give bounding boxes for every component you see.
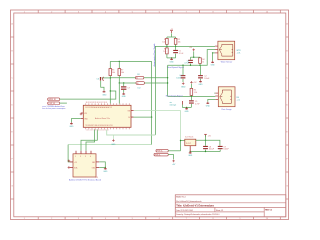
wire C5 bottom stub bbox=[190, 104, 192, 108]
net label U2 right bbox=[236, 50, 242, 55]
wire P3 stub bbox=[190, 84, 192, 89]
wire C8 top bbox=[205, 140, 207, 146]
capacitor C8 bbox=[203, 146, 215, 151]
resistor R1 bbox=[162, 38, 168, 44]
wire rain signal bbox=[168, 95, 216, 97]
ground C2 bbox=[199, 80, 204, 86]
wire C3 top stub bbox=[190, 57, 192, 60]
label wind speed signal bbox=[167, 67, 185, 69]
wire divider top tee bbox=[167, 36, 176, 38]
svg-text:10k: 10k bbox=[163, 51, 166, 53]
wire Arduino 5V pin bbox=[132, 116, 152, 118]
svg-text:100nF: 100nF bbox=[204, 78, 210, 80]
transistor T1 emitter bbox=[182, 101, 184, 105]
capacitor C9 bbox=[218, 146, 230, 151]
svg-text:_LVL: _LVL bbox=[236, 53, 241, 55]
wire RTC pin8 bbox=[99, 166, 105, 168]
wire C2 bottom stub bbox=[200, 79, 202, 81]
wire VIN to regulator bbox=[134, 111, 181, 141]
ground C6 bbox=[102, 90, 107, 96]
svg-text:GND: GND bbox=[188, 155, 193, 157]
ground divider bbox=[170, 58, 175, 64]
net flag MISO bbox=[110, 74, 167, 80]
svg-text:5 S S G: 5 S S G bbox=[75, 156, 93, 158]
wire U2 pin3 gnd stub bbox=[212, 53, 214, 61]
wire rain signal vertical bbox=[167, 65, 169, 96]
wire +5V to RTC (long light) bbox=[68, 144, 152, 146]
ground U2 pin3 bbox=[211, 61, 216, 67]
junction divider gnd bbox=[171, 57, 172, 58]
wire C3 bottom stub bbox=[190, 64, 192, 66]
svg-text:Rain Gauge: Rain Gauge bbox=[221, 109, 231, 111]
svg-text:GND: GND bbox=[199, 84, 204, 86]
IC IC3 RTC breakout bbox=[70, 151, 99, 177]
wire R1 bottom stub bbox=[166, 44, 168, 46]
capacitor C6 bbox=[96, 77, 103, 81]
supply +5V P2 bbox=[189, 47, 195, 51]
svg-text:IN OUT: IN OUT bbox=[186, 143, 191, 145]
svg-text:Adafruit DS1307 RTC Breakout B: Adafruit DS1307 RTC Breakout Board bbox=[69, 179, 101, 182]
net label U3 right bbox=[236, 97, 241, 102]
svg-text:_cnt: _cnt bbox=[236, 99, 241, 102]
ground C7 bbox=[122, 93, 127, 99]
junction pullup right bbox=[119, 61, 120, 62]
junction reg out bbox=[205, 140, 206, 141]
capacitor C7 bbox=[121, 86, 130, 89]
junction R1/vane bbox=[166, 46, 167, 47]
svg-text:100nF: 100nF bbox=[176, 77, 182, 79]
wire driver top bbox=[191, 56, 201, 58]
wire R4 top stub bbox=[199, 56, 201, 59]
svg-text:D11: D11 bbox=[137, 74, 140, 76]
net flag VIN- bbox=[154, 153, 174, 159]
wire R6 bottom bbox=[109, 76, 111, 104]
wire R2 top stub bbox=[175, 37, 177, 38]
svg-text:Wind Speed Signal: Wind Speed Signal bbox=[167, 67, 185, 69]
wire wind vane signal bbox=[155, 46, 215, 135]
svg-text:TX1 RX0 RST GND D2 D3 D4 D5 D6: TX1 RX0 RST GND D2 D3 D4 D5 D6 D7 D8 bbox=[85, 125, 112, 127]
junction gnd rail reg bbox=[190, 151, 191, 152]
IC IC2 regulator bbox=[185, 136, 196, 145]
ground IC1 left bbox=[69, 122, 74, 128]
net flag MOSI bbox=[119, 82, 167, 90]
net flag D12 bbox=[48, 102, 67, 105]
wire SCL to RTC bbox=[81, 130, 97, 151]
svg-text:100nF: 100nF bbox=[223, 149, 229, 151]
resistor R5 bbox=[190, 88, 197, 95]
supply cross bottom bbox=[111, 135, 116, 146]
junction flag2 bbox=[167, 82, 168, 83]
wire SDA to RTC bbox=[86, 130, 95, 151]
label U2 name bbox=[221, 61, 233, 64]
module U3 rain gauge bbox=[214, 87, 235, 107]
svg-text:Anemometer Reed Switch: Anemometer Reed Switch bbox=[153, 43, 156, 67]
wire R5 bottom stub bbox=[190, 95, 192, 96]
junction U2 pin3 bbox=[212, 52, 213, 53]
wire R2 bottom stub bbox=[175, 44, 177, 46]
junction C7 tap bbox=[123, 82, 124, 83]
schematic frame border bbox=[11, 10, 289, 220]
IC IC1 Arduino Nano bbox=[81, 102, 134, 131]
wire C4 top stub bbox=[182, 65, 184, 75]
net label RG cyan bbox=[170, 102, 177, 107]
wire emitter join bbox=[183, 105, 192, 108]
junction R6 tap bbox=[110, 77, 111, 78]
svg-text:GND: GND bbox=[102, 94, 107, 96]
svg-text:Rain Gauge Signal: Rain Gauge Signal bbox=[166, 96, 183, 98]
ground rain row bbox=[185, 107, 190, 113]
wire C9 bottom bbox=[219, 150, 221, 152]
wire regulator gnd pin bbox=[189, 146, 191, 152]
junction flag1 bbox=[167, 77, 168, 78]
wire C1 top stub bbox=[175, 46, 177, 50]
svg-text:GND: GND bbox=[111, 144, 116, 146]
supply cross PWR bbox=[172, 160, 176, 166]
junction RTC gnd bbox=[105, 167, 106, 168]
resistor R7 bbox=[118, 69, 124, 76]
wire C7 bottom bbox=[123, 90, 125, 93]
wire U3 pin3 to gnd bbox=[208, 100, 216, 102]
junction R5/rain bbox=[191, 96, 192, 97]
svg-text:26 25 24 23 22 21 20 19 18 17: 26 25 24 23 22 21 20 19 18 17 16 15 bbox=[86, 102, 108, 104]
supply +5V P7 bbox=[204, 134, 212, 137]
wire P7 stub bbox=[205, 135, 207, 140]
resistor R6 bbox=[109, 69, 115, 76]
svg-text:GND: GND bbox=[211, 64, 216, 66]
wire +5V vertical to Arduino 5V pin bbox=[151, 61, 153, 144]
svg-text:Arduino Nano V3.x: Arduino Nano V3.x bbox=[95, 117, 110, 120]
svg-text:PWR_IN+: PWR_IN+ bbox=[157, 151, 163, 153]
wire C2 top stub bbox=[200, 65, 202, 75]
svg-text:PWR_IN-: PWR_IN- bbox=[155, 154, 161, 156]
capacitor C2 bbox=[198, 75, 210, 80]
wire +5V down to RTC VCC bbox=[68, 145, 73, 162]
junction R7 tap bbox=[119, 82, 120, 83]
wire RTC right gnd bbox=[99, 162, 105, 168]
label anemometer (vertical blue) bbox=[153, 43, 156, 67]
title block bbox=[175, 195, 285, 217]
resistor R2 bbox=[174, 38, 180, 44]
svg-text:GND: GND bbox=[206, 105, 211, 107]
junction flag D11 to SDA bbox=[110, 90, 111, 91]
junction +5V at Arduino 5V wire bbox=[151, 116, 152, 117]
svg-text:D12: D12 bbox=[138, 88, 141, 90]
capacitor C1 bbox=[173, 50, 184, 55]
svg-text:GND: GND bbox=[122, 96, 127, 98]
ground C4 (cross) bbox=[181, 82, 186, 88]
ground regulator bbox=[188, 152, 193, 158]
wire C7 stub bbox=[123, 83, 125, 86]
wire +5V rail horizontal bbox=[110, 60, 151, 62]
wire P2 stub bbox=[193, 51, 195, 57]
wire C6 down bbox=[101, 81, 104, 91]
wire C8 bottom bbox=[205, 150, 207, 152]
label U3 name bbox=[221, 109, 231, 111]
wire anemometer return (light) bbox=[107, 130, 156, 135]
svg-text:GND: GND bbox=[170, 61, 175, 63]
wire R7 bottom bbox=[118, 76, 120, 83]
junction R2/vane bbox=[175, 46, 176, 47]
wire pullup left top stub bbox=[109, 61, 111, 68]
junction rain gnd bbox=[186, 107, 187, 108]
svg-text:GND: GND bbox=[181, 87, 186, 89]
junction R4/signal bbox=[199, 65, 200, 66]
svg-text:100uF: 100uF bbox=[209, 149, 215, 151]
supply cross RTC left1 bbox=[68, 160, 71, 163]
wire U2 pin3 bbox=[213, 52, 215, 54]
svg-text:100k: 100k bbox=[162, 42, 166, 44]
supply cross RTC left2 bbox=[68, 166, 71, 169]
wire gnd rail bbox=[190, 151, 220, 153]
junction C4/signal bbox=[182, 65, 183, 66]
wire C4 bottom stub bbox=[182, 79, 184, 82]
svg-text:10k: 10k bbox=[178, 42, 181, 44]
junction P2/top bbox=[193, 57, 194, 58]
wire IC1 gnd left bbox=[71, 119, 81, 123]
svg-text:1.3k: 1.3k bbox=[194, 92, 197, 94]
wire R7 pin down bbox=[118, 83, 120, 104]
svg-text:interrupt: interrupt bbox=[170, 104, 177, 107]
svg-text:GND: GND bbox=[69, 126, 74, 128]
module U2 water sensor bbox=[215, 41, 235, 60]
net flag D11 bbox=[48, 91, 116, 101]
wire C5 top stub bbox=[190, 96, 192, 100]
resistor R3 bbox=[163, 48, 168, 54]
wire P1 stub bbox=[171, 33, 173, 37]
wire R3 bottom stub bbox=[166, 54, 168, 58]
svg-text:1k: 1k bbox=[202, 61, 204, 63]
junction C3/signal bbox=[190, 65, 191, 66]
wire R1 top stub bbox=[166, 37, 168, 38]
wire C1 bottom stub bbox=[175, 54, 177, 58]
wire flag1 riser bbox=[180, 141, 182, 151]
supply +5V P6 bbox=[80, 113, 83, 116]
svg-text:IC2 78L05: IC2 78L05 bbox=[185, 136, 193, 138]
junction reg in bbox=[180, 140, 181, 141]
resistor R4 bbox=[199, 58, 205, 64]
wire regulator input bbox=[181, 140, 185, 142]
label rain gauge signal bbox=[166, 96, 183, 98]
svg-text:Title: h2oDroid-V1 Extremadura: Title: h2oDroid-V1 Extremadura bbox=[176, 204, 214, 207]
capacitor C3 bbox=[184, 60, 193, 65]
wire cap tap left bbox=[102, 77, 111, 79]
capacitor C5 bbox=[189, 100, 200, 105]
ground RTC bbox=[103, 167, 108, 173]
svg-text:IC3: IC3 bbox=[95, 177, 98, 179]
svg-text:C7: C7 bbox=[128, 88, 130, 90]
svg-text:GND: GND bbox=[185, 111, 190, 113]
wire pullup right top stub bbox=[118, 61, 120, 68]
svg-text:PUMP_EN: PUMP_EN bbox=[48, 103, 55, 105]
net flag VIN+ bbox=[156, 149, 181, 152]
svg-text:GND: GND bbox=[103, 171, 108, 173]
supply +5V P1 bbox=[170, 29, 174, 33]
comment text blue bbox=[42, 105, 65, 110]
supply +5V P3 bbox=[190, 81, 197, 84]
ground U3 bbox=[206, 102, 211, 108]
svg-text:Water Sensor: Water Sensor bbox=[221, 61, 233, 64]
wire wind speed signal bbox=[168, 50, 215, 66]
svg-text:10k: 10k bbox=[112, 72, 115, 74]
label RTC ref bbox=[95, 177, 98, 179]
wire R4 bottom stub bbox=[199, 63, 201, 65]
wire R3 top stub bbox=[166, 46, 168, 48]
wire divider bottom tee bbox=[167, 57, 176, 59]
svg-text:10k: 10k bbox=[121, 72, 124, 74]
svg-text:REV: A: REV: A bbox=[265, 209, 272, 212]
wire regulator output bbox=[196, 140, 220, 146]
capacitor C4 bbox=[176, 75, 185, 79]
label RTC blue bbox=[69, 179, 101, 182]
svg-text:C6: C6 bbox=[96, 78, 98, 80]
junction gnd rail C8 bbox=[205, 151, 206, 152]
